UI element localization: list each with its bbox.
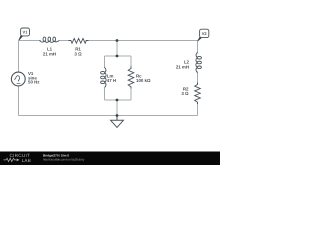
voltage source V1	[11, 72, 25, 86]
wire top rail	[19, 40, 42, 42]
svg-text:http://circuitlab.com/cm75y26u: http://circuitlab.com/cm75y26ulv5y	[43, 158, 85, 162]
resistor R2	[195, 83, 201, 105]
wire bottom rail	[19, 115, 198, 117]
svg-text:47 H: 47 H	[107, 78, 116, 83]
wire mid stem upper	[116, 41, 118, 57]
wire box left lower	[104, 88, 106, 100]
footer bar	[0, 152, 220, 166]
wire box bottom	[105, 99, 132, 101]
node junction box bottom	[116, 99, 119, 102]
wire right rail mid	[197, 72, 199, 85]
wire left rail lower	[18, 86, 20, 116]
svg-text:V2: V2	[202, 31, 208, 36]
wire top rail mid	[59, 40, 71, 42]
wire right rail bottom	[197, 102, 199, 116]
wire box left upper	[104, 56, 106, 68]
wire box right lower	[130, 87, 132, 100]
svg-text:21 mH: 21 mH	[176, 65, 189, 70]
node junction bottom	[116, 114, 119, 117]
svg-text:21 mH: 21 mH	[43, 51, 56, 56]
wire box right upper	[130, 56, 132, 69]
wire top rail right	[86, 40, 198, 42]
svg-text:LAB: LAB	[22, 158, 32, 163]
node junction box top	[116, 55, 119, 58]
inductor L2	[196, 52, 202, 72]
inductor Lm	[101, 67, 107, 87]
wire box top	[105, 55, 132, 57]
resistor R1	[69, 38, 89, 43]
svg-text:V1: V1	[23, 30, 29, 35]
node flag V2	[198, 29, 209, 41]
logo arrow	[17, 159, 20, 162]
wire right rail top	[197, 41, 199, 54]
resistor Rc	[128, 67, 134, 89]
node flag V1	[19, 28, 30, 40]
node junction top	[116, 39, 119, 42]
inductor L1	[39, 37, 59, 42]
svg-text:100 kΩ: 100 kΩ	[136, 78, 151, 83]
ground	[111, 116, 124, 128]
wire mid stem lower	[116, 100, 118, 116]
wire left rail	[18, 41, 20, 73]
svg-text:50 Hz: 50 Hz	[28, 80, 40, 85]
svg-text:3 Ω: 3 Ω	[181, 91, 189, 96]
svg-text:3 Ω: 3 Ω	[74, 51, 82, 56]
logo resistor glyph	[4, 158, 17, 161]
